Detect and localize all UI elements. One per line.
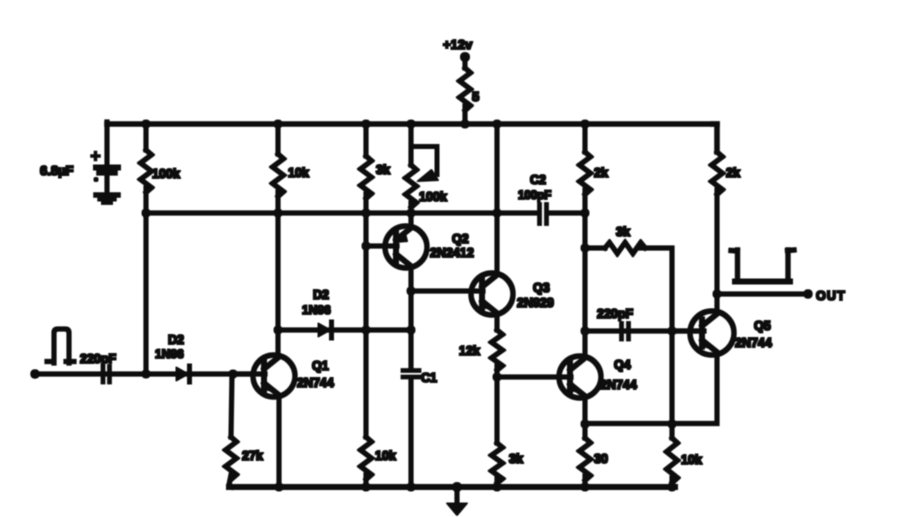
wire 100k to rail2 and input xyxy=(144,188,148,374)
label C2 xyxy=(530,173,546,187)
svg-text:Q5: Q5 xyxy=(754,319,771,333)
label C1 xyxy=(421,371,437,385)
node input terminal xyxy=(31,370,39,378)
label 3k horiz xyxy=(616,225,630,239)
resistor 27k xyxy=(226,437,237,479)
label 2N2412 xyxy=(430,246,474,260)
label 27k xyxy=(242,449,263,463)
capacitor C2 plates xyxy=(540,205,547,224)
junction rail-3k xyxy=(362,120,370,128)
junction supply-rail xyxy=(461,120,469,128)
wire 2k down to Q4 xyxy=(583,190,587,356)
wire 2k top lead xyxy=(583,124,587,152)
wire 3k horiz left xyxy=(585,246,605,250)
junction rail-pot xyxy=(407,120,415,128)
svg-text:27k: 27k xyxy=(242,449,263,463)
svg-text:2N744: 2N744 xyxy=(297,376,334,390)
wire Q2 base xyxy=(366,244,397,248)
junction Q3col-rail2 xyxy=(493,209,501,217)
resistor 2k right xyxy=(712,152,723,194)
wire 12k to junction xyxy=(495,366,499,443)
label +12v xyxy=(443,37,473,52)
wire top supply rail xyxy=(107,122,717,127)
resistor 3k bottom xyxy=(492,443,503,483)
label 6.8uF xyxy=(40,163,74,178)
node +12V terminal xyxy=(461,53,470,69)
wire right 2k corner xyxy=(713,124,717,152)
wire Q5 emitter xyxy=(585,354,717,424)
wire ground rail xyxy=(229,485,675,490)
svg-text:12k: 12k xyxy=(459,344,480,358)
junction x672-emitter wire xyxy=(668,420,676,428)
svg-text:220pF: 220pF xyxy=(597,307,633,321)
resistor 3k horizontal xyxy=(605,243,645,254)
wire 10k down to Q1 collector xyxy=(276,192,280,356)
junction 10k-diode wire xyxy=(274,326,282,334)
wire pot to rail2 xyxy=(409,203,413,215)
label Q2 xyxy=(452,232,469,246)
label 12k xyxy=(459,344,480,358)
junction rail-10k xyxy=(274,120,282,128)
wire Q4 emitter xyxy=(583,397,587,438)
label 10k xyxy=(288,166,309,180)
junction pot-rail2 xyxy=(407,209,415,217)
wire cap branch xyxy=(105,122,109,165)
junction rail-2k xyxy=(581,120,589,128)
svg-text:3k: 3k xyxy=(509,452,523,466)
wire bias rail xyxy=(146,211,537,215)
transistor Q4 2N744 xyxy=(559,356,601,398)
svg-text:100k: 100k xyxy=(152,167,180,181)
junction input-Q1 base xyxy=(229,370,237,378)
label 3k xyxy=(376,163,390,177)
svg-text:2N744: 2N744 xyxy=(735,336,772,350)
junction 100k-rail2 xyxy=(142,209,150,217)
polarity + mark xyxy=(92,153,99,160)
junction 3k-rail2 xyxy=(362,209,370,217)
junction 3k497-rail xyxy=(493,483,501,491)
svg-text:Q3: Q3 xyxy=(533,281,550,295)
resistor 100k xyxy=(141,150,152,192)
wire 3k top lead xyxy=(364,124,368,156)
label 1N96 upper xyxy=(302,303,331,317)
transistor Q3 2N929 xyxy=(471,273,513,315)
wire Q5 base xyxy=(672,329,703,333)
svg-text:1N96: 1N96 xyxy=(302,303,331,317)
diode D2 input xyxy=(176,366,190,382)
transistor Q2 2N2412 xyxy=(385,226,427,268)
junction 10k-rail2 xyxy=(274,209,282,217)
wire bias rail right of C2 xyxy=(549,211,585,215)
ground (cap) xyxy=(96,174,118,202)
svg-text:D2: D2 xyxy=(168,333,184,347)
svg-text:Q2: Q2 xyxy=(452,232,469,246)
capacitor input plates xyxy=(103,367,110,383)
junction x672-220pF wire xyxy=(668,327,676,335)
label 2N744 Q1 xyxy=(297,376,334,390)
junction 10k366-rail xyxy=(362,483,370,491)
label Q4 xyxy=(614,358,631,372)
svg-text:10k: 10k xyxy=(288,166,309,180)
resistor 12k xyxy=(492,330,503,370)
label Q1 xyxy=(312,359,329,373)
junction 30-rail xyxy=(581,483,589,491)
junction Q1e-rail xyxy=(275,483,283,491)
svg-text:Q4: Q4 xyxy=(614,358,631,372)
label 5 xyxy=(472,89,479,104)
wire 27k to rail xyxy=(229,475,232,487)
junction 10k672-rail xyxy=(668,483,676,491)
capacitor 220pF plates xyxy=(622,324,629,340)
svg-text:2N929: 2N929 xyxy=(517,296,554,310)
wire 10k bottom xyxy=(670,478,674,487)
svg-text:C2: C2 xyxy=(530,173,546,187)
svg-text:C1: C1 xyxy=(421,371,437,385)
label 30 xyxy=(594,452,608,466)
svg-text:2N744: 2N744 xyxy=(600,378,637,392)
svg-text:1N96: 1N96 xyxy=(155,347,184,361)
junction 2k-3k wire xyxy=(581,244,589,252)
junction Q2e-Q3base xyxy=(407,287,415,295)
svg-text:3k: 3k xyxy=(616,225,630,239)
label 100pF xyxy=(518,190,551,202)
resistor 5 (series supply) xyxy=(460,68,471,124)
svg-text:6.8µF: 6.8µF xyxy=(40,163,74,178)
label 220pF xyxy=(597,307,633,321)
label 100k pot xyxy=(419,190,447,204)
ground symbol xyxy=(447,483,468,516)
capacitor 6.8uF plates xyxy=(96,168,118,173)
label 2k right xyxy=(726,166,740,180)
wire 220pF xyxy=(585,329,704,333)
svg-text:D2: D2 xyxy=(313,288,329,302)
junction OUT xyxy=(713,290,721,298)
junction Q2e-diode wire xyxy=(407,326,415,334)
polarity dot xyxy=(94,178,98,182)
junction rail-100k xyxy=(142,120,150,128)
wire 3k bottom lead xyxy=(495,479,499,487)
resistor 100k pot xyxy=(406,165,417,207)
label 2N744 Q4 xyxy=(600,378,637,392)
wire input xyxy=(35,372,253,376)
wire 27k branch xyxy=(231,374,232,437)
svg-text:10k: 10k xyxy=(681,453,702,467)
resistor 10k xyxy=(273,154,284,196)
wire Q1 base xyxy=(233,372,265,376)
label Q3 xyxy=(533,281,550,295)
diode D2 upper xyxy=(318,322,332,338)
junction 2k-rail2 xyxy=(581,209,589,217)
wire Q2 emitter down xyxy=(409,267,413,369)
svg-text:10k: 10k xyxy=(375,449,396,463)
svg-text:Q1: Q1 xyxy=(312,359,329,373)
junction Q4e-wire xyxy=(581,420,589,428)
wire C1 to ground rail xyxy=(409,378,413,487)
svg-text:+12v: +12v xyxy=(443,37,473,52)
pot wiper loop xyxy=(412,147,439,182)
label D2 upper xyxy=(313,288,329,302)
svg-text:3k: 3k xyxy=(376,163,390,177)
resistor 10k (bottom, x366) xyxy=(361,437,372,479)
svg-text:220pF: 220pF xyxy=(80,352,116,366)
wire 3k down xyxy=(364,194,368,437)
wire Q3 collector xyxy=(495,124,499,274)
input pulse symbol xyxy=(47,329,74,363)
wire diode D2 upper xyxy=(278,328,411,332)
resistor 10k (x672) xyxy=(667,424,678,483)
capacitor C1 plates xyxy=(403,371,419,378)
svg-text:2k: 2k xyxy=(594,166,608,180)
svg-text:100pF: 100pF xyxy=(518,190,551,202)
junction C1-rail xyxy=(407,483,415,491)
label 3k bottom xyxy=(509,452,523,466)
wire 100k top lead xyxy=(144,124,148,150)
label 2N929 xyxy=(517,296,554,310)
junction Q3e-Q4base xyxy=(493,373,501,381)
output waveform symbol xyxy=(731,250,794,282)
label Q5 xyxy=(754,319,771,333)
label 100k xyxy=(152,167,180,181)
svg-text:2N2412: 2N2412 xyxy=(430,246,474,260)
label 10k x672 xyxy=(681,453,702,467)
node OUT terminal xyxy=(804,290,812,298)
label 2k xyxy=(594,166,608,180)
wire Q3 emitter xyxy=(495,314,499,330)
wire pot top lead xyxy=(409,124,413,165)
resistor 3k xyxy=(361,156,372,198)
svg-text:30: 30 xyxy=(594,452,608,466)
transistor Q5 2N744 xyxy=(690,311,734,355)
wire Q1 emitter xyxy=(277,397,281,487)
label 220pF input xyxy=(80,352,116,366)
wire 10k top lead xyxy=(276,124,280,154)
wire Q4 base xyxy=(497,375,571,379)
svg-text:5: 5 xyxy=(472,89,479,104)
label D2 input xyxy=(168,333,184,347)
svg-text:100k: 100k xyxy=(419,190,447,204)
junction input-100k branch xyxy=(142,370,150,378)
wire 10k bottom lead xyxy=(364,475,368,487)
junction 2k-220pF wire xyxy=(581,327,589,335)
svg-text:2k: 2k xyxy=(726,166,740,180)
wire Q2 collector xyxy=(409,215,413,227)
resistor 2k xyxy=(580,152,591,194)
label 1N96 input xyxy=(155,347,184,361)
wire 2k to Q5 xyxy=(715,190,719,312)
junction 3k-Q2base xyxy=(362,242,370,250)
junction rail-Q3col xyxy=(493,120,501,128)
label 10k bottom xyxy=(375,449,396,463)
wire Q3 base xyxy=(411,289,483,293)
transistor Q1 2N744 xyxy=(253,355,295,397)
wire 30 bottom lead xyxy=(583,476,587,487)
resistor 30 xyxy=(580,438,591,480)
svg-text:OUT: OUT xyxy=(816,289,846,303)
wire OUT xyxy=(717,292,807,296)
label 2N744 Q5 xyxy=(735,336,772,350)
junction 3k-diode wire xyxy=(362,326,370,334)
label OUT xyxy=(816,289,846,303)
wire 3k horiz right corner xyxy=(641,248,672,424)
